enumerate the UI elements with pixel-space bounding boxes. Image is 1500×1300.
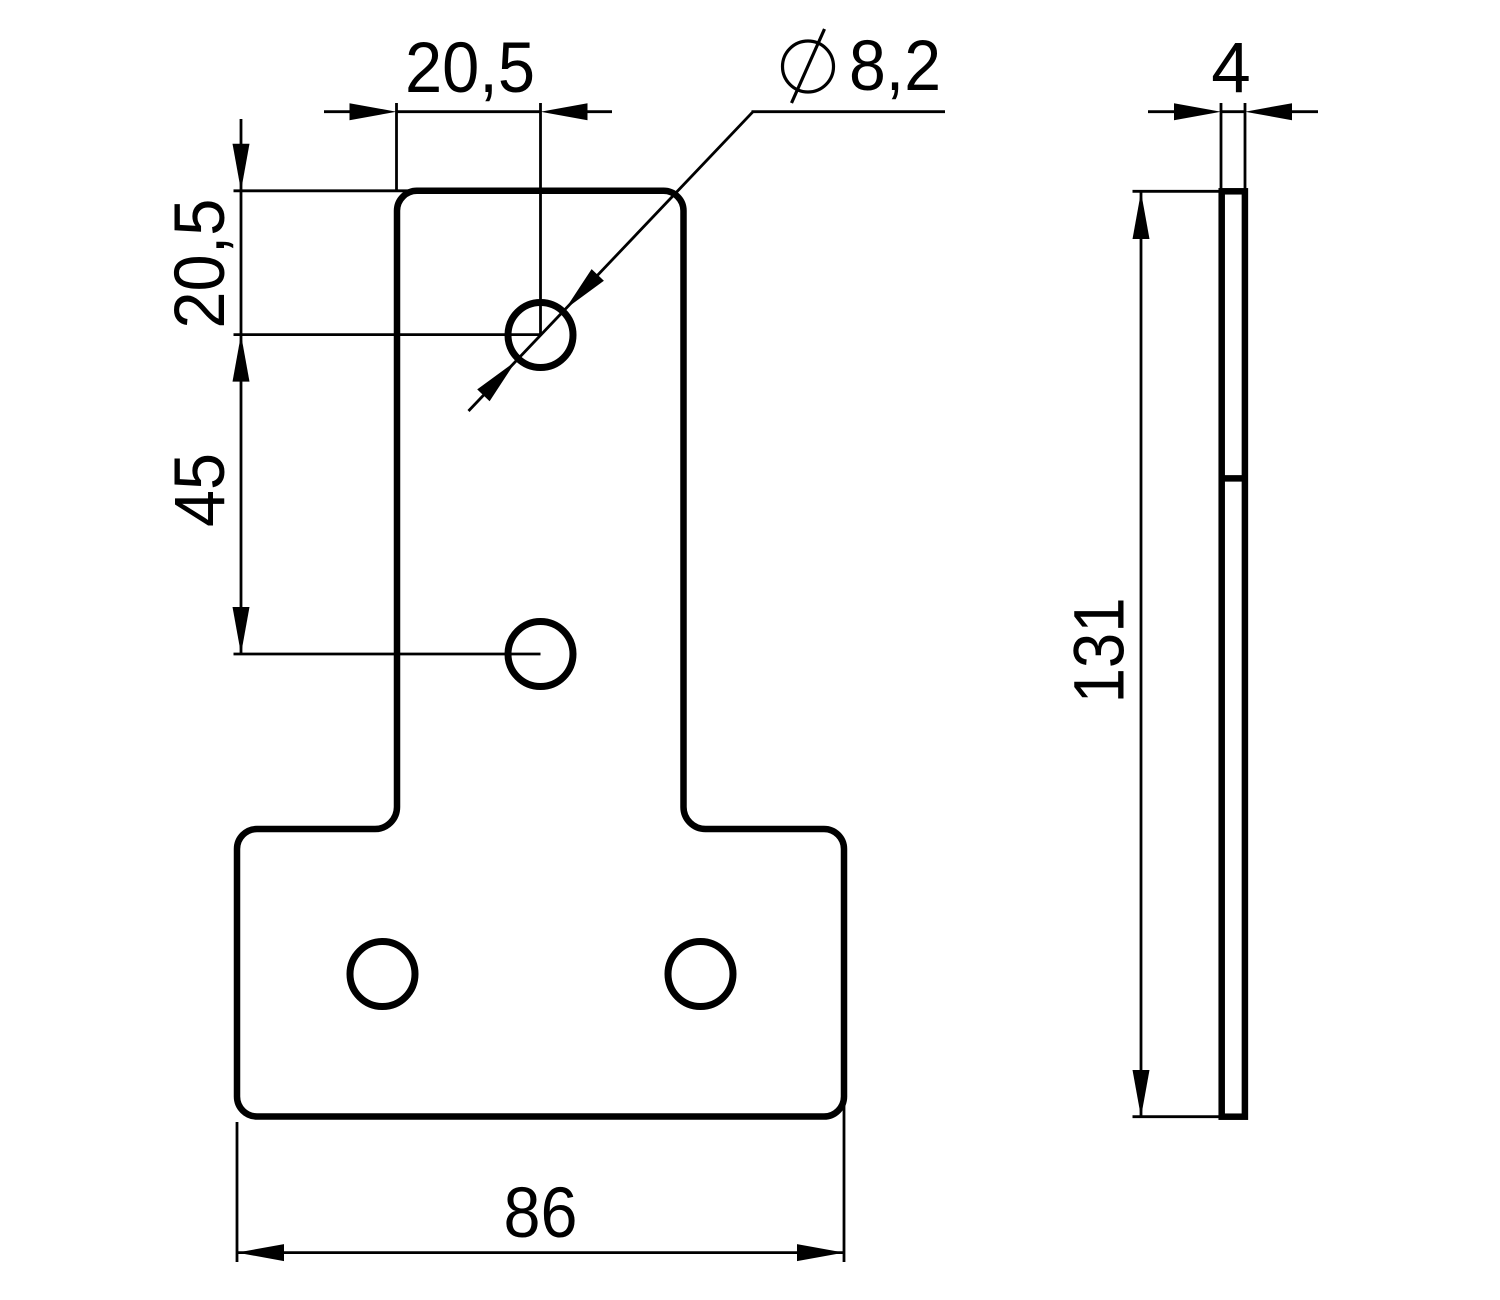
dim 45: bottom arrow [233, 607, 250, 654]
dim 86: left arrow [237, 1244, 284, 1261]
hole top (8.2 dia) [508, 303, 573, 368]
leader dia 8,2: diagonal line [469, 112, 754, 411]
leader dia 8,2: diameter symbol circle [783, 41, 834, 92]
dim 86: right arrow [797, 1244, 844, 1261]
svg-text:8,2: 8,2 [849, 27, 941, 106]
leader dia 8,2: diameter symbol slash [792, 29, 825, 103]
svg-text:86: 86 [504, 1174, 578, 1253]
dim 4: right tail [1291, 110, 1318, 113]
dim 86: right extension line [843, 1103, 846, 1262]
svg-text:45: 45 [161, 453, 240, 527]
dim 20,5 top: extension line through hole center [539, 103, 542, 335]
dim 4: right arrow [1245, 103, 1292, 120]
hole bottom left [350, 942, 415, 1007]
dim 20,5 top: left arrow [350, 103, 397, 120]
dim 131: dimension line [1140, 191, 1143, 1116]
dim 4: left arrow [1174, 103, 1221, 120]
leader dia 8,2: upper arrow [565, 269, 604, 309]
dim 4: dimension line [1221, 110, 1245, 113]
dim 20,5 top: left tail [324, 110, 350, 113]
dim 20,5 top: extension line at stem left [395, 103, 398, 190]
leader dia 8,2: lower arrow [477, 361, 516, 401]
front view plate outline [237, 191, 844, 1117]
svg-text:4: 4 [1211, 29, 1251, 108]
dim 4: right extension line [1244, 103, 1247, 190]
dim 131: bottom extension line [1133, 1115, 1220, 1118]
dim 86: dimension line [237, 1251, 844, 1254]
side view plate outline [1222, 191, 1245, 1116]
dim 20,5 top: right arrow [541, 103, 588, 120]
dim 20,5 top: right tail [587, 110, 612, 113]
hole bottom right [668, 942, 733, 1007]
dim 20,5 left: top arrow [233, 144, 250, 191]
dim 20,5 left + 45: vertical dimension line with top tail [240, 119, 243, 654]
dim 20,5 left / 45: shared arrow at hole1 line [233, 335, 250, 382]
dim 20,5 top: dimension line [397, 110, 541, 113]
dim 131: bottom arrow [1133, 1070, 1150, 1117]
hole middle [508, 622, 573, 687]
dim 45: extension line at hole2 center [234, 653, 541, 656]
leader dia 8,2: horizontal underline [752, 110, 946, 113]
dim 20,5 left / 45: extension line at hole1 center [234, 333, 541, 336]
dim 4: left tail [1148, 110, 1175, 113]
dim 86: left extension line [236, 1122, 239, 1262]
dim 131: top extension line [1133, 190, 1220, 193]
svg-text:131: 131 [1061, 597, 1140, 703]
svg-text:20,5: 20,5 [161, 199, 240, 329]
side view seam line [1222, 475, 1245, 482]
svg-text:20,5: 20,5 [405, 29, 535, 108]
dim 4: left extension line [1220, 103, 1223, 190]
dim 131: top arrow [1133, 192, 1150, 239]
dim 20,5 left: extension line at plate top [234, 189, 415, 192]
